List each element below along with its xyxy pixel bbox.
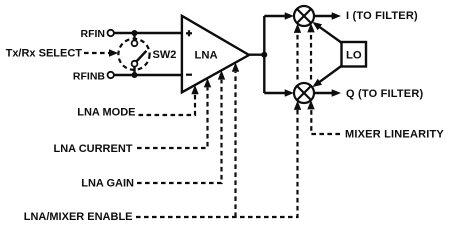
- svg-text:LNA CURRENT: LNA CURRENT: [53, 143, 132, 155]
- svg-text:LNA MODE: LNA MODE: [77, 107, 135, 119]
- svg-text:RFINB: RFINB: [73, 70, 105, 82]
- svg-text:I (TO FILTER): I (TO FILTER): [346, 10, 418, 22]
- svg-text:LNA GAIN: LNA GAIN: [81, 177, 134, 189]
- svg-text:LNA: LNA: [195, 49, 218, 61]
- svg-text:LO: LO: [346, 49, 362, 61]
- svg-text:RFIN: RFIN: [81, 28, 106, 40]
- svg-text:Q (TO FILTER): Q (TO FILTER): [346, 88, 423, 100]
- svg-text:SW2: SW2: [153, 49, 177, 61]
- svg-text:Tx/Rx SELECT: Tx/Rx SELECT: [6, 48, 83, 60]
- svg-text:LNA/MIXER ENABLE: LNA/MIXER ENABLE: [24, 211, 133, 223]
- svg-text:MIXER LINEARITY: MIXER LINEARITY: [345, 129, 444, 141]
